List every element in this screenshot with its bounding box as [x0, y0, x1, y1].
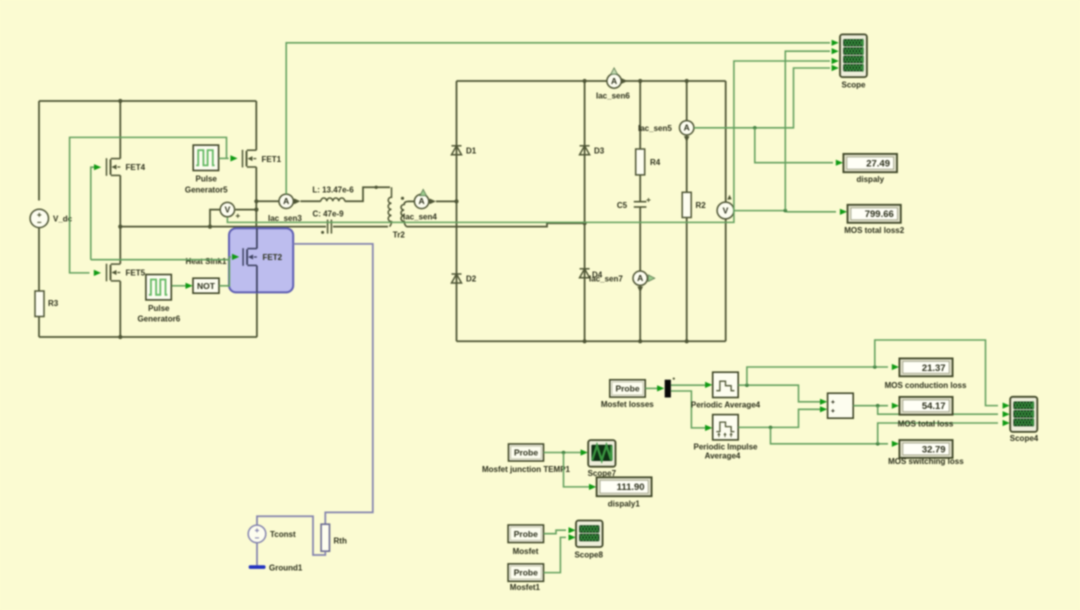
mux tick: [673, 378, 675, 380]
signal wire PA4 to 21.37: [747, 367, 888, 385]
svg-text:Periodic Average4: Periodic Average4: [691, 400, 761, 409]
arrow FET5 gate: [94, 270, 101, 276]
svg-text:A: A: [283, 196, 289, 206]
svg-text:Tr2: Tr2: [393, 230, 406, 239]
secondary polarity dot: [401, 197, 404, 200]
signal wire PG5 branch loop: [70, 137, 227, 273]
wire rect right leg upper: [725, 81, 727, 202]
svg-text:799.66: 799.66: [865, 209, 894, 220]
direction arrow Iac_sen5: [684, 136, 690, 142]
display MOS switching loss: [899, 440, 952, 458]
pulse generator Pulse Generator5: [193, 145, 218, 170]
display MOS conduction loss: [899, 358, 952, 376]
signal wire temp probe out: [544, 452, 582, 454]
wire FET2 source to bottom rail: [256, 266, 258, 337]
node bridge AC2: [583, 221, 587, 225]
scope Scope: [840, 34, 867, 77]
arrow display 32.79: [892, 441, 899, 447]
node FET5 source junction: [118, 335, 122, 339]
arrow display 27.49: [836, 160, 843, 166]
svg-text:dispaly1: dispaly1: [608, 500, 641, 509]
resistor Rth: [321, 524, 329, 551]
node 21.37 branch: [873, 365, 877, 369]
wire FET4 drain: [119, 101, 121, 159]
probe Mosfet1: [508, 564, 543, 581]
svg-text:27.49: 27.49: [866, 158, 890, 169]
node R2 bottom: [685, 339, 689, 343]
svg-text:Mosfet losses: Mosfet losses: [601, 400, 654, 409]
wire secondary bottom to bridge: [407, 223, 585, 226]
output stub Iac_sen7: [648, 275, 655, 282]
signal wire mosfet1 probe: [544, 537, 567, 572]
arrow FET4 gate: [94, 164, 101, 170]
node C5 bottom: [638, 339, 642, 343]
svg-text:Scope: Scope: [841, 80, 866, 89]
arrow display 21.37: [892, 364, 899, 370]
diode D1: [452, 146, 462, 155]
wire Iac_sen3 to inductor: [301, 200, 321, 202]
node bridge AC1: [454, 199, 458, 203]
plus mark left voltmeter: [236, 214, 240, 218]
svg-text:21.37: 21.37: [922, 363, 946, 374]
svg-text:D2: D2: [466, 275, 477, 284]
svg-text:V: V: [225, 205, 231, 215]
svg-text:V: V: [723, 206, 729, 216]
wire rail to Iac_sen3: [256, 200, 278, 202]
ammeter Iac_sen7: [633, 271, 647, 285]
direction arrow Iac_sen6: [621, 78, 628, 84]
resistor R2: [682, 192, 691, 217]
svg-text:R2: R2: [696, 201, 707, 210]
wire FET1 drain: [255, 101, 257, 150]
svg-text:Iac_sen7: Iac_sen7: [589, 274, 623, 283]
arrow PA4 input: [705, 382, 712, 388]
scope Scope4: [1010, 397, 1037, 432]
output stub Iac_sen6: [611, 68, 618, 74]
probe Mosfet junction TEMP1: [509, 444, 544, 461]
signal wire mosfet probe: [544, 530, 567, 534]
block Periodic Average4: [713, 372, 739, 397]
node D4 bottom: [583, 339, 587, 343]
signal wire Vleft long route: [227, 61, 830, 222]
arrow scope4 input3: [1003, 420, 1010, 426]
logic NOT block: [193, 278, 219, 293]
arrow scope input4: [832, 65, 839, 71]
svg-text:R4: R4: [650, 158, 661, 167]
arrow scope7 input: [581, 449, 588, 455]
svg-text:L: 13.47e-6: L: 13.47e-6: [312, 186, 354, 195]
arrow FET1 gate: [230, 155, 237, 161]
heat sink Heat Sink1 block: [229, 228, 293, 292]
display MOS total loss: [899, 397, 952, 415]
wire rect top rail: [457, 80, 726, 82]
svg-text:Iac_sen4: Iac_sen4: [403, 212, 437, 221]
signal wire PIA4 to 32.79: [771, 427, 889, 443]
arrow display 54.17: [892, 403, 899, 409]
wire left rail below R3: [38, 317, 40, 338]
svg-text:C5: C5: [617, 201, 628, 210]
svg-text:Probe: Probe: [514, 448, 538, 458]
node Iac_sen5 branch: [753, 126, 757, 130]
svg-text:Average4: Average4: [705, 451, 741, 460]
signal wire Vright to scope: [785, 51, 830, 210]
signal wire heat sink row: [91, 257, 231, 260]
svg-text:32.79: 32.79: [922, 444, 946, 455]
wire Iac_sen4 to bridge: [436, 200, 457, 202]
plus mark C5: [647, 198, 651, 202]
svg-text:Generator5: Generator5: [185, 185, 228, 194]
capacitor C5: [634, 202, 647, 207]
node FET4 drain junction: [118, 99, 122, 103]
signal wire NOT to gate node: [219, 260, 229, 286]
svg-text:Mosfet: Mosfet: [513, 547, 539, 556]
svg-text:Generator6: Generator6: [137, 315, 180, 324]
node 32.79 branch: [876, 442, 880, 446]
ammeter Iac_sen4: [414, 194, 428, 208]
svg-text:FET1: FET1: [262, 155, 282, 164]
display dispaly1: [597, 477, 652, 496]
svg-text:Iac_sen5: Iac_sen5: [638, 124, 672, 133]
arrow scope input3: [832, 58, 839, 64]
sum block: [828, 393, 854, 418]
arrow scope8 input1: [569, 527, 576, 533]
svg-text:MOS total loss2: MOS total loss2: [844, 226, 905, 235]
svg-text:Scope4: Scope4: [1010, 434, 1039, 443]
node V left junction: [208, 225, 212, 229]
wire rect left leg: [456, 81, 458, 341]
transistor FET5: [107, 264, 121, 282]
direction arrow Iac_sen4: [430, 199, 437, 205]
wire top rail left bridge: [39, 100, 256, 102]
node Vright branch: [784, 209, 788, 213]
wire FET5 source: [119, 281, 121, 337]
signal wire sum out: [853, 405, 888, 407]
voltage source V_dc: [30, 209, 48, 227]
wire rect bottom rail: [457, 340, 726, 342]
svg-text:54.17: 54.17: [922, 401, 946, 412]
resistor R4: [636, 149, 645, 175]
resistor R3: [35, 291, 44, 317]
svg-text:Pulse: Pulse: [196, 175, 218, 184]
wire cap lead continues: [333, 226, 388, 228]
scope Scope7: [588, 440, 615, 467]
node R4 top: [638, 79, 642, 83]
node D3 top: [583, 79, 587, 83]
svg-text:Scope8: Scope8: [574, 551, 603, 560]
signal wire PG6 to NOT: [172, 285, 186, 287]
wire Iac_sen5 to R2: [686, 135, 688, 192]
wire left rail lower: [38, 228, 40, 292]
signal wire mux to PIA4: [671, 391, 706, 428]
wire R4 branch upper: [639, 81, 641, 149]
svg-text:Probe: Probe: [514, 568, 538, 578]
svg-text:Mosfet1: Mosfet1: [510, 583, 541, 592]
voltmeter (right): [717, 202, 734, 219]
voltmeter (left): [220, 202, 234, 216]
svg-text:Ground1: Ground1: [269, 564, 303, 573]
arrow scope8 input2: [569, 534, 576, 540]
svg-text:D1: D1: [466, 146, 477, 155]
probe Mosfet losses: [610, 380, 645, 397]
arrow scope input1: [832, 40, 839, 46]
signal wire Iac_sen3 to scope: [286, 43, 830, 194]
arrow display 799.66: [840, 209, 847, 215]
arrow scope4 input1: [1003, 403, 1010, 409]
signal wire PG5 to FET1 gate: [219, 157, 229, 159]
wire left rail upper: [38, 101, 40, 201]
signal wire total loss to scope4: [878, 423, 998, 444]
signal wire Vright to display: [734, 211, 836, 212]
signal wire to dispaly1: [564, 453, 591, 487]
node left leg midpoint: [118, 225, 122, 229]
arrow sum input1: [820, 399, 827, 405]
output stub Iac_sen4: [420, 189, 427, 195]
arrow sum input2: [820, 406, 827, 412]
svg-text:A: A: [637, 273, 643, 283]
node PA4 branch: [745, 383, 749, 387]
node PIA4 branch: [769, 426, 773, 430]
transistor FET4: [107, 158, 121, 176]
signal wire Iac_sen5 out: [694, 68, 830, 128]
signal wire probe to mux: [645, 387, 658, 389]
primary polarity dot: [375, 186, 378, 189]
direction arrow Iac_sen7: [637, 287, 643, 293]
transistor FET2: [243, 248, 257, 266]
svg-text:111.90: 111.90: [617, 482, 645, 493]
signal wire PIA4 out: [738, 409, 820, 427]
arrow scope4 input2: [1003, 411, 1010, 417]
svg-text:Tconst: Tconst: [270, 530, 296, 539]
arrow PIA4 input: [705, 425, 712, 431]
cap polarity dot: [321, 231, 324, 234]
wire FET2 source inside heat sink: [256, 266, 258, 293]
svg-text:Probe: Probe: [615, 383, 639, 393]
wire secondary top to Iac_sen4: [408, 200, 414, 202]
diode D2: [452, 274, 462, 283]
svg-text:A: A: [684, 123, 690, 133]
svg-text:MOS switching loss: MOS switching loss: [888, 457, 964, 466]
wire V right terminal: [235, 209, 256, 211]
svg-text:dispaly: dispaly: [857, 175, 885, 184]
wire R4 to C5: [639, 175, 641, 201]
wire inductor to transformer: [345, 187, 390, 201]
node R2 top: [685, 79, 689, 83]
mux black bar: [665, 380, 671, 398]
signal wire loop to scope4 in1: [875, 340, 998, 406]
transistor FET1: [243, 150, 257, 168]
svg-text:A: A: [419, 196, 425, 206]
thermal wire heatsink to Rth: [293, 244, 373, 524]
probe Mosfet: [508, 525, 543, 543]
svg-text:FET2: FET2: [263, 253, 283, 262]
arrow dispaly1 input: [589, 484, 596, 490]
svg-text:A: A: [611, 76, 617, 86]
svg-text:FET5: FET5: [126, 269, 146, 278]
wire bottom rail left bridge: [39, 336, 257, 338]
transformer Tr2 secondary winding: [401, 201, 408, 226]
svg-text:Heat Sink1: Heat Sink1: [186, 257, 227, 266]
wire rect mid leg: [584, 81, 586, 341]
arrow FET2 gate: [232, 254, 239, 260]
signal wire FET4 gate branch: [91, 167, 95, 260]
signal wire to display 27.49: [755, 128, 833, 163]
ammeter Iac_sen6: [607, 74, 621, 88]
thermal wire Tconst to ground: [256, 543, 258, 566]
diode D4: [580, 269, 590, 278]
svg-text:Mosfet junction TEMP1: Mosfet junction TEMP1: [482, 465, 571, 474]
wire Iac_sen7 to rail: [639, 285, 641, 341]
ground Ground1: [249, 565, 266, 569]
node temp branch: [562, 451, 566, 455]
signal wire 54.17 to scope4 in2: [878, 406, 998, 415]
node V+ branch: [254, 208, 258, 212]
signal wire mux to PA4: [671, 384, 706, 386]
svg-text:D3: D3: [594, 146, 605, 155]
ammeter Iac_sen5: [680, 121, 694, 135]
arrow scope input2: [832, 48, 839, 54]
arrow mux input: [657, 385, 664, 391]
node 54.17 branch: [876, 404, 880, 408]
svg-text:Rth: Rth: [334, 536, 347, 545]
wire R2 to rail: [686, 218, 688, 342]
ammeter Iac_sen3: [279, 194, 293, 208]
pulse generator Pulse Generator6: [146, 275, 171, 300]
wire mid output to cap: [120, 226, 326, 228]
scope Scope8: [576, 521, 603, 548]
wire R2 branch upper: [686, 81, 688, 121]
wire FET4-FET5 link: [119, 175, 121, 264]
svg-text:Pulse: Pulse: [148, 304, 170, 313]
svg-text:Probe: Probe: [514, 529, 538, 539]
transformer Tr2 primary winding: [388, 187, 391, 226]
wire FET1 source rail: [255, 167, 257, 228]
source Tconst: [248, 525, 266, 543]
svg-text:C: 47e-9: C: 47e-9: [312, 209, 344, 218]
display dispaly: [843, 154, 897, 172]
display MOS total loss2: [848, 205, 901, 223]
wire V left terminal: [210, 210, 220, 227]
svg-text:NOT: NOT: [197, 281, 216, 291]
block Periodic Impulse Average4: [713, 415, 739, 440]
wire C5 to Iac_sen7: [639, 207, 641, 271]
svg-text:Periodic Impulse: Periodic Impulse: [693, 443, 758, 452]
svg-text:R3: R3: [48, 299, 59, 308]
diode D3: [580, 146, 590, 155]
wire FET2 drain inside heat sink: [256, 228, 258, 248]
svg-text:Iac_sen6: Iac_sen6: [596, 92, 630, 101]
thermal wire Rth bottom loop: [257, 516, 325, 555]
wire rect right leg lower: [725, 219, 727, 341]
svg-text:FET4: FET4: [126, 163, 146, 172]
node Iac_sen3 branch: [254, 199, 258, 203]
signal wire PA4 out: [738, 385, 820, 402]
capacitor C: [328, 220, 332, 234]
plus mark right voltmeter: [727, 195, 731, 200]
direction arrow Iac_sen3: [294, 198, 301, 204]
inductor L: [321, 198, 345, 201]
arrow NOT input: [186, 283, 193, 289]
svg-text:MOS conduction loss: MOS conduction loss: [885, 381, 967, 390]
svg-text:MOS total loss: MOS total loss: [898, 419, 954, 428]
